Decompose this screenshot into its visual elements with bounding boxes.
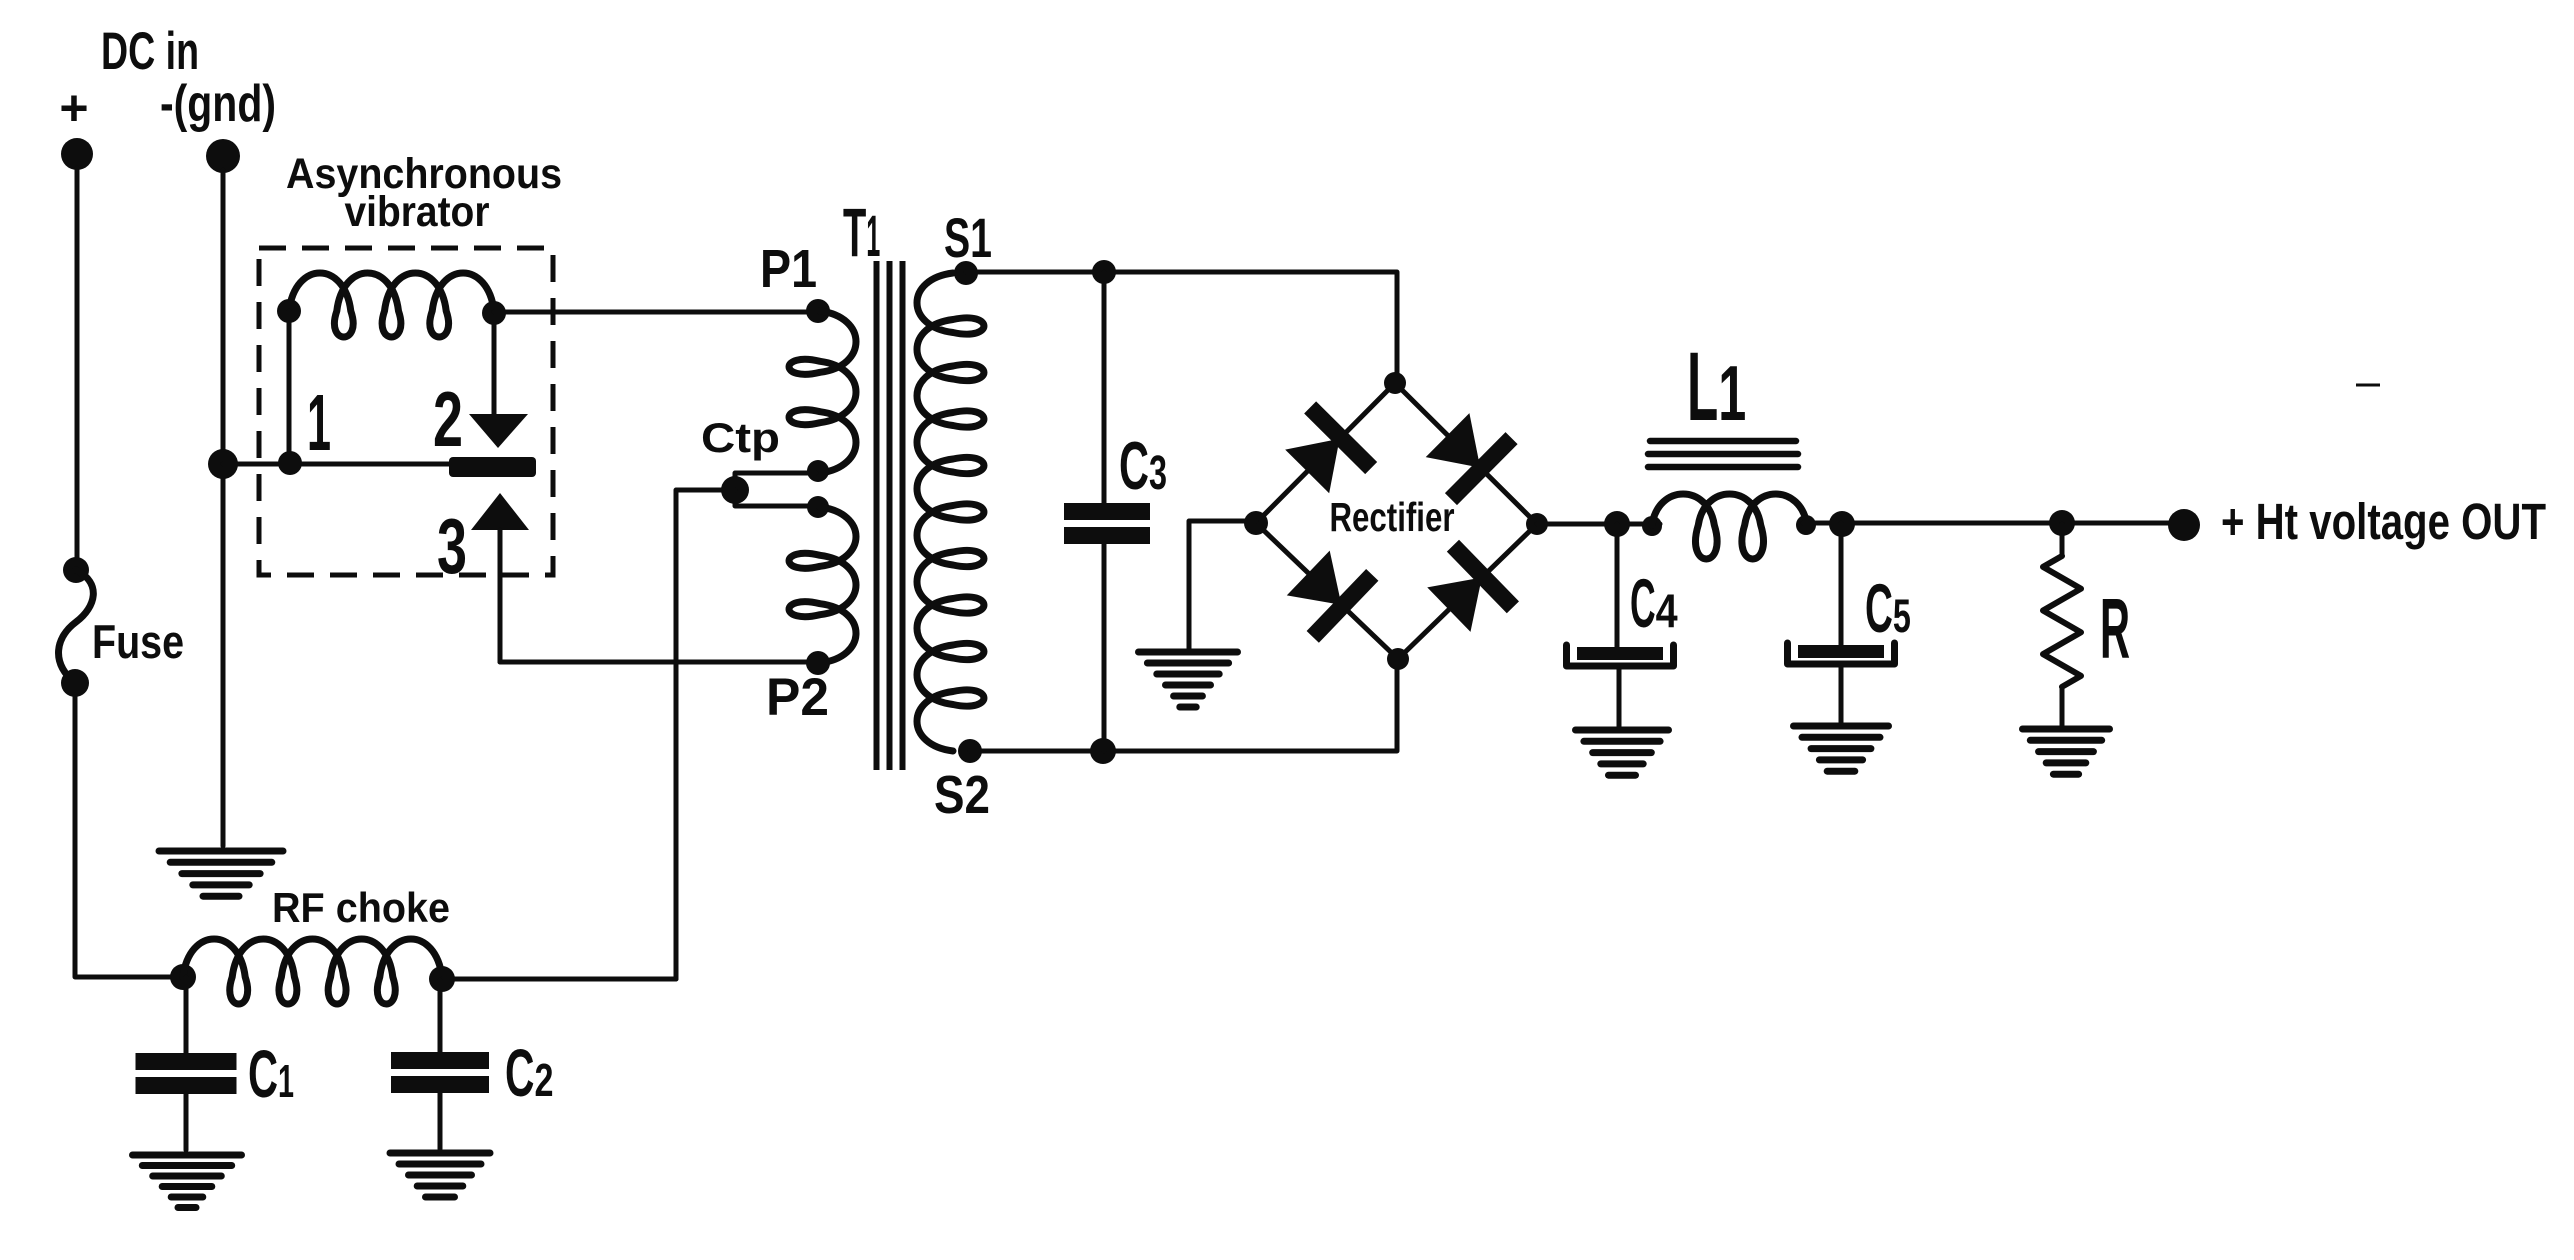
svg-text:S2: S2 (934, 765, 990, 825)
svg-text:+: + (59, 80, 88, 136)
wire: C4 upper lead (1615, 524, 1620, 648)
fuse (59, 557, 94, 697)
wire: C5 upper lead (1839, 523, 1844, 646)
wire: C5 lower lead (1839, 668, 1844, 724)
capacitor C4 (electrolytic) (1567, 645, 1674, 666)
wire: RF choke to Ctp riser (442, 977, 676, 982)
junction: vibrator pin 1 (278, 451, 302, 475)
junction: -(gnd) to vibrator contact (208, 449, 238, 479)
junction: L1 left pin (1642, 516, 1662, 536)
svg-text:-(gnd): -(gnd) (160, 75, 276, 133)
svg-text:vibrator: vibrator (345, 188, 490, 236)
wire: C1 lower lead (184, 1094, 189, 1150)
svg-text:Ctp: Ctp (701, 414, 780, 461)
svg-text:Fuse: Fuse (92, 615, 184, 668)
wire: S2 bottom rail to bridge (970, 660, 1397, 751)
ground: C2 (390, 1153, 490, 1197)
diode D1 (top-left edge) (1277, 401, 1377, 501)
vibrator driver coil (289, 273, 494, 337)
diode D2 (top-right edge) (1417, 405, 1517, 505)
wire: -(gnd) terminal down to ground (221, 170, 226, 846)
ground: DC input ground (159, 851, 283, 896)
junction: C3 bottom (1090, 738, 1116, 764)
terminal: DC in + (61, 138, 93, 170)
terminal: + Ht voltage OUT (2168, 509, 2200, 541)
svg-text:P2: P2 (766, 668, 829, 727)
junction: R node (2049, 510, 2075, 536)
junction: RF choke right pin (429, 966, 455, 992)
junction: vibrator coil right pin (482, 301, 506, 325)
svg-text:1: 1 (307, 378, 331, 467)
junction: bridge top vertex (1384, 372, 1406, 394)
junction: C5 node (1829, 511, 1855, 537)
wire: C2 upper lead (438, 980, 443, 1054)
transformer primary winding upper (P1-Ctp) (789, 311, 856, 473)
wire: C2 lower lead (438, 1093, 443, 1149)
wire: C3 lower lead (1102, 544, 1107, 751)
junction: primary upper lower pin (807, 460, 829, 482)
junction: bridge left vertex (1244, 511, 1268, 535)
wire: + terminal down to fuse (75, 168, 80, 560)
resistor R zigzag (2043, 556, 2081, 687)
wire: vibrator coil to P1 (494, 310, 818, 315)
transformer core (877, 261, 903, 770)
transformer primary winding lower (Ctp-P2) (789, 507, 856, 663)
wire: vibrator coil pin 1 down (287, 311, 292, 463)
wire: bridge left vertex to ground (1189, 521, 1256, 650)
ground: C1 (133, 1155, 242, 1208)
ground: C5 (1794, 726, 1889, 771)
wire: S1 top rail to bridge (966, 272, 1397, 383)
svg-text:RF choke: RF choke (272, 884, 450, 931)
svg-text:2: 2 (433, 375, 463, 463)
wire: vibrator reed 3 to P2 (500, 660, 818, 665)
junction: vibrator coil left pin (277, 299, 301, 323)
wire: R upper lead (2060, 524, 2065, 556)
svg-text:R: R (2100, 582, 2130, 677)
vibrator reed bar (contact) (449, 457, 536, 477)
center tap stubs (735, 473, 816, 506)
ground: C4 (1576, 730, 1669, 775)
wire: L1 to output terminal (1803, 521, 2181, 526)
rectifier bridge frame (1256, 383, 1537, 659)
junction: S1 terminal (954, 261, 978, 285)
ground: rectifier reference (1139, 652, 1238, 707)
wire: C1 upper lead (184, 977, 189, 1055)
junction: primary lower upper pin (807, 496, 829, 518)
wire: C4 lower lead (1617, 670, 1622, 728)
vibrator dashed box (259, 248, 553, 575)
capacitor C2 (391, 1052, 489, 1093)
transformer secondary winding (917, 273, 984, 751)
svg-text:Rectifier: Rectifier (1330, 494, 1455, 540)
junction: S2 terminal (958, 739, 982, 763)
wire: C3 upper lead (1102, 272, 1107, 505)
wire: -(gnd) to vibrator reed (223, 462, 452, 467)
stray mark (2356, 384, 2380, 387)
junction: bridge bottom vertex (1387, 648, 1409, 670)
junction: C4 node (1604, 511, 1630, 537)
capacitor C3 (1064, 503, 1150, 544)
inductor L1 winding (1652, 494, 1807, 559)
inductor L1 core (1648, 441, 1798, 467)
capacitor C5 (electrolytic) (1788, 643, 1895, 664)
capacitor C1 (136, 1053, 237, 1094)
junction: bridge right vertex (1526, 513, 1548, 535)
svg-text:+ Ht voltage OUT: + Ht voltage OUT (2221, 493, 2546, 550)
wire: fuse down and to RF choke (75, 695, 181, 977)
vibrator contact 2 arrow (down) (469, 313, 528, 448)
junction: L1 right pin (1796, 515, 1816, 535)
RF choke winding (183, 939, 442, 1004)
svg-text:T1: T1 (843, 194, 880, 271)
diode D3 (bottom-left edge) (1278, 542, 1378, 643)
junction: C3 top (1092, 260, 1116, 284)
ground: R (2023, 729, 2110, 774)
vibrator contact 3 arrow (up) (471, 493, 529, 662)
diode D4 (bottom-right edge) (1419, 540, 1519, 641)
svg-text:L1: L1 (1687, 332, 1746, 441)
svg-text:3: 3 (437, 502, 467, 590)
junction: P2 terminal (806, 651, 830, 675)
terminal: DC in -(gnd) (206, 139, 240, 173)
junction: P1 terminal (806, 299, 830, 323)
wire: Ctp to RF choke (down) (676, 490, 735, 979)
junction: RF choke left pin (170, 964, 196, 990)
svg-text:DC in: DC in (101, 22, 199, 81)
svg-text:S1: S1 (944, 206, 992, 269)
wire: bridge right vertex to L1 (1537, 522, 1660, 527)
junction: Ctp (721, 476, 749, 504)
wire: R lower lead (2060, 687, 2065, 727)
svg-text:P1: P1 (760, 239, 817, 299)
